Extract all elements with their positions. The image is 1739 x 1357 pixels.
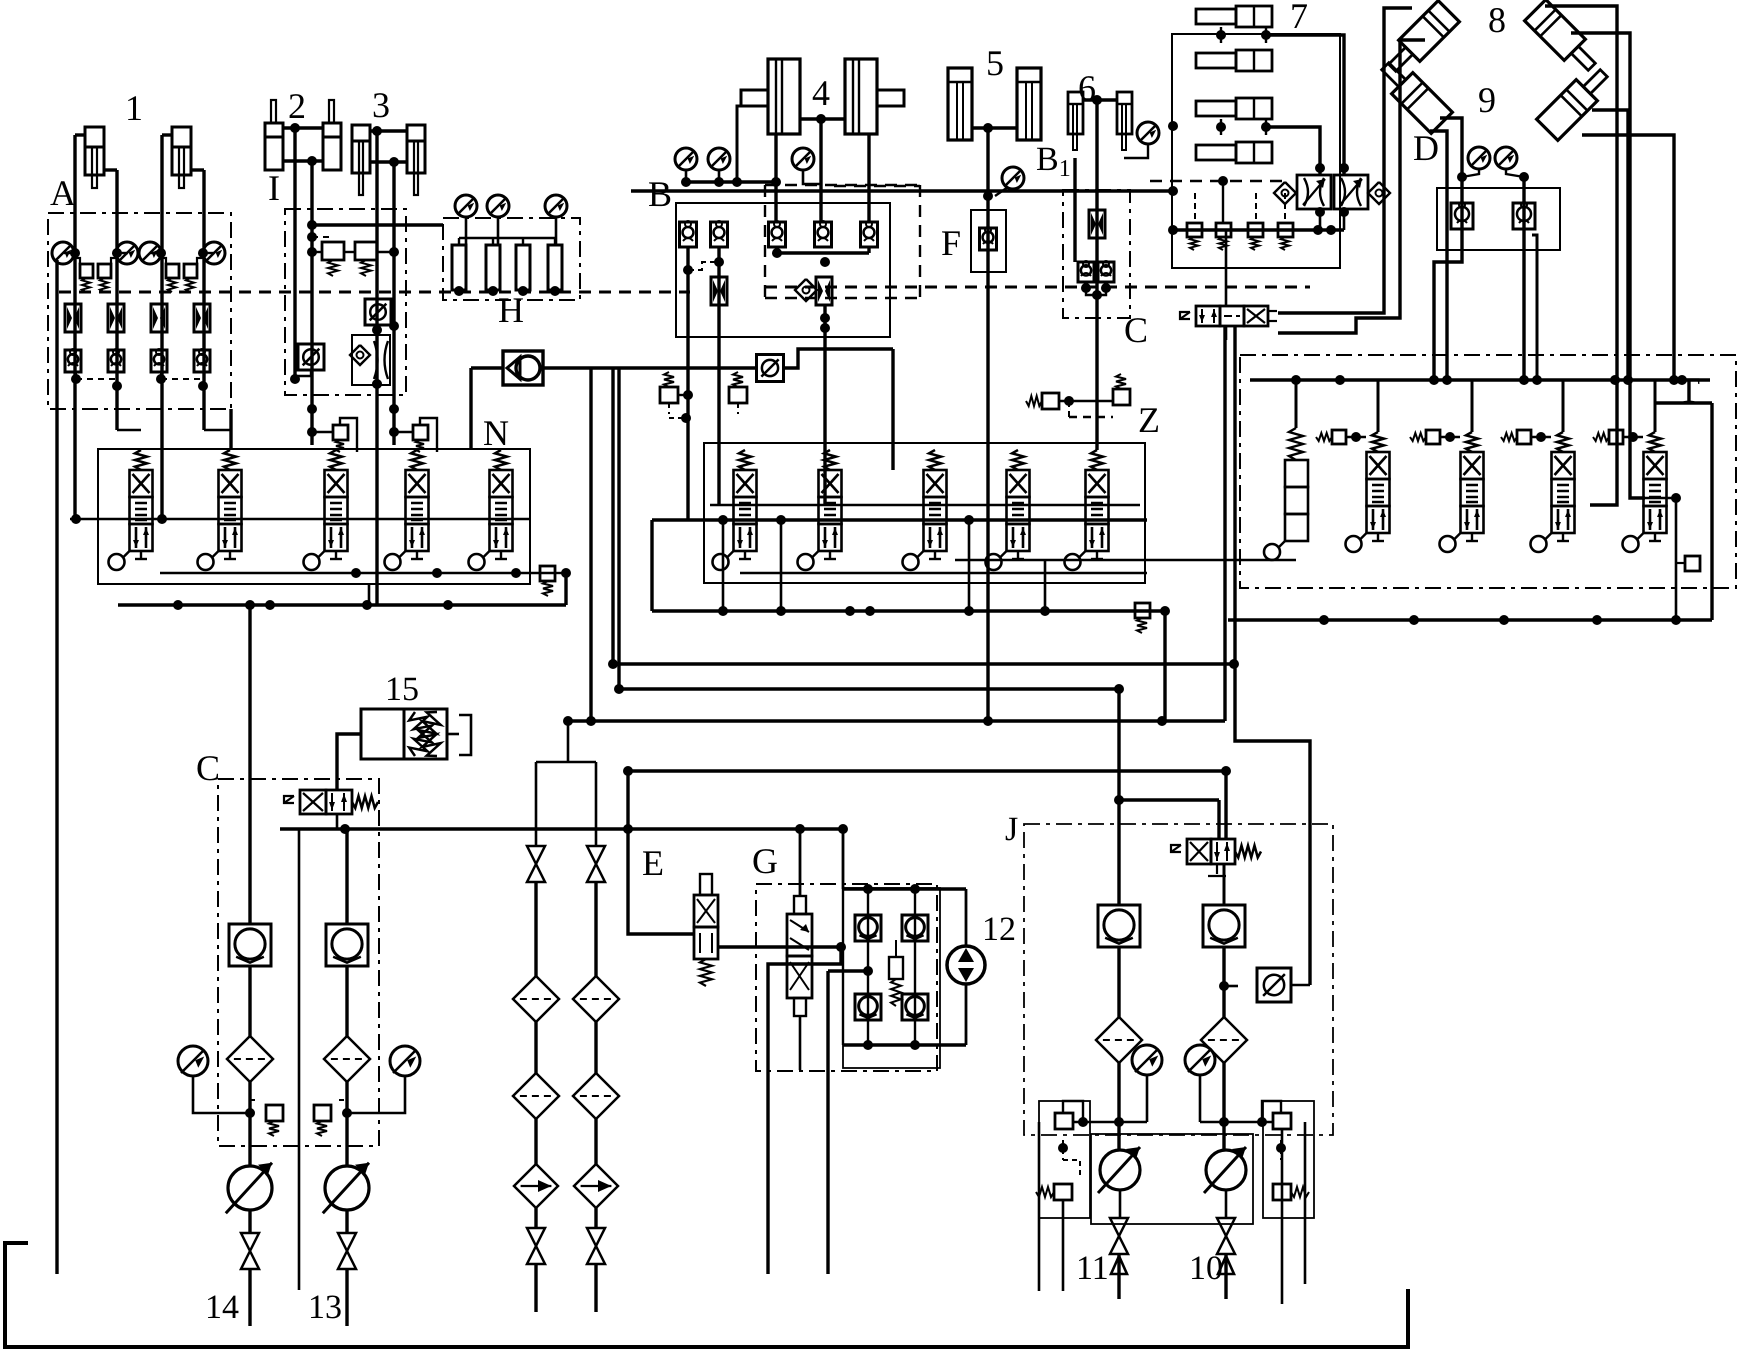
svg-text:10: 10 [1189,1250,1223,1287]
svg-text:B: B [648,174,672,214]
svg-text:N: N [483,413,509,453]
svg-text:4: 4 [812,73,830,113]
svg-text:3: 3 [372,85,390,125]
svg-text:C: C [196,748,220,788]
svg-text:2: 2 [288,86,306,126]
svg-text:A: A [50,173,76,213]
svg-text:9: 9 [1478,80,1496,120]
svg-text:7: 7 [1290,0,1308,36]
svg-text:1: 1 [125,88,143,128]
svg-text:C: C [1124,310,1148,350]
svg-text:D: D [1413,128,1439,168]
svg-text:15: 15 [385,671,419,708]
svg-text:I: I [268,168,280,208]
svg-text:H: H [498,290,524,330]
svg-text:J: J [1005,811,1018,848]
svg-text:13: 13 [308,1289,342,1326]
svg-text:G: G [752,841,778,881]
svg-text:12: 12 [982,911,1016,948]
svg-text:E: E [642,843,664,883]
svg-text:8: 8 [1488,0,1506,40]
svg-text:14: 14 [205,1289,239,1326]
svg-text:F: F [941,223,961,263]
svg-text:Z: Z [1138,400,1160,440]
svg-text:5: 5 [986,43,1004,83]
svg-text:11: 11 [1076,1250,1109,1287]
